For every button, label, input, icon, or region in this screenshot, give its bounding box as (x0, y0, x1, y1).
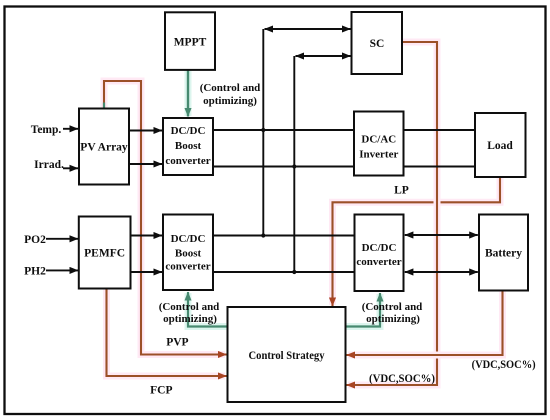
svg-text:MPPT: MPPT (174, 37, 207, 49)
svg-text:Inverter: Inverter (359, 149, 398, 161)
wire DC bus 1 vertical (262, 29, 264, 236)
svg-text:converter: converter (165, 155, 210, 167)
svg-text:DC/DC: DC/DC (171, 233, 206, 245)
wire boost2 to DC/DC converter (upper rail) (213, 235, 355, 237)
wire FCP feedback (PEMFC bottom to Control Strategy left, red) (107, 289, 227, 377)
wire PEMFC to boost2 (lower) (131, 271, 163, 273)
block SC (352, 12, 403, 74)
svg-text:(VDC,SOC%): (VDC,SOC%) (369, 373, 435, 385)
svg-text:DC/DC: DC/DC (171, 125, 206, 137)
svg-text:(Control and: (Control and (200, 82, 261, 94)
wire SC (VDC,SOC%) feedback (SC right to Control Strategy right, red) (347, 42, 438, 385)
svg-text:LP: LP (394, 185, 409, 197)
block DC/DC converter (355, 215, 404, 292)
label (Control and optimizing) bottom right (362, 301, 423, 325)
svg-text:DC/DC: DC/DC (362, 242, 397, 254)
block DC/DC boost converter 2 (163, 215, 213, 291)
svg-text:FCP: FCP (150, 385, 172, 397)
block Control Strategy (228, 307, 346, 402)
wire PO2 input arrow to PEMFC (46, 238, 78, 240)
label (Control and optimizing) bottom left (159, 301, 220, 325)
wire LP feedback (Load bottom to Control Strategy top, red) (333, 177, 501, 306)
svg-text:PVP: PVP (166, 337, 188, 349)
label (Control and optimizing) top (200, 82, 261, 107)
junction dot bus2/lower rail (292, 164, 296, 168)
block MPPT (165, 12, 215, 70)
svg-text:SC: SC (370, 38, 385, 50)
svg-text:(VDC,SOC%): (VDC,SOC%) (472, 359, 536, 371)
wire PV Array to DC/DC boost converter (upper) (129, 130, 162, 132)
wire PV Array to DC/DC boost converter (lower) (129, 163, 162, 165)
svg-text:optimizing): optimizing) (366, 313, 420, 325)
svg-text:optimizing): optimizing) (163, 313, 217, 325)
svg-text:Boost: Boost (175, 248, 202, 260)
svg-text:converter: converter (165, 261, 210, 273)
wire DC bus 2 vertical (293, 56, 295, 272)
wire PEMFC to boost2 (upper) (131, 235, 163, 237)
svg-text:Irrad.: Irrad. (34, 159, 64, 171)
wire Temp. input arrow to PV Array (63, 128, 78, 130)
wire PH2 input arrow to PEMFC (46, 269, 78, 271)
wire DC/AC inverter to Load (lower) (404, 166, 476, 168)
wire DC/DC converter to Battery (upper double arrow) (405, 234, 478, 236)
svg-text:Boost: Boost (175, 140, 202, 152)
svg-text:PV Array: PV Array (80, 142, 128, 154)
svg-text:PH2: PH2 (24, 265, 46, 277)
svg-text:Load: Load (487, 140, 513, 152)
svg-text:DC/AC: DC/AC (361, 134, 396, 146)
svg-text:(Control and: (Control and (159, 301, 220, 313)
wire Control Strategy to DC/DC converter control (green) (346, 293, 381, 327)
svg-text:Battery: Battery (485, 248, 522, 260)
wire boost2 to DC/DC converter (lower rail) (213, 271, 355, 273)
wire boost1 to DC/AC inverter (upper rail) (213, 129, 354, 131)
wire Control Strategy to boost2 control (green) (188, 292, 229, 327)
svg-text:optimizing): optimizing) (203, 95, 257, 107)
svg-text:PO2: PO2 (24, 234, 46, 246)
block DC/DC boost converter 1 (163, 118, 213, 175)
block PEMFC (79, 217, 131, 289)
svg-text:Control Strategy: Control Strategy (249, 350, 325, 362)
svg-text:converter: converter (356, 256, 401, 268)
wire bus1 to SC (double arrow) (265, 28, 351, 30)
wire Irrad. input arrow to PV Array (63, 167, 78, 169)
wire green stub at PV Array top (103, 103, 105, 109)
wire boost1 to DC/AC inverter (lower rail) (213, 166, 354, 168)
junction dot bus2/boost2 lower rail (292, 270, 296, 274)
wire Battery (VDC,SOC%) feedback (Battery bottom to Control Strategy right, red) (347, 291, 503, 356)
junction dot bus1/upper rail (261, 128, 265, 132)
wire DC/AC inverter to Load (upper) (404, 129, 476, 131)
wire bus2 to SC (double arrow) (296, 55, 351, 57)
block PV Array (79, 109, 129, 185)
wire PVP feedback (PV Array top to Control Strategy left, red) (104, 81, 227, 355)
block Load (475, 113, 526, 177)
svg-text:PEMFC: PEMFC (84, 248, 125, 260)
wire MPPT control arrow to boost1 (green) (185, 70, 192, 117)
block Battery (479, 215, 528, 291)
junction dot bus1/boost2 upper rail (261, 233, 265, 237)
block DC/AC inverter (354, 112, 404, 176)
svg-text:Temp.: Temp. (31, 124, 62, 136)
wire DC/DC converter to Battery (lower double arrow) (405, 271, 478, 273)
svg-text:(Control and: (Control and (362, 301, 423, 313)
